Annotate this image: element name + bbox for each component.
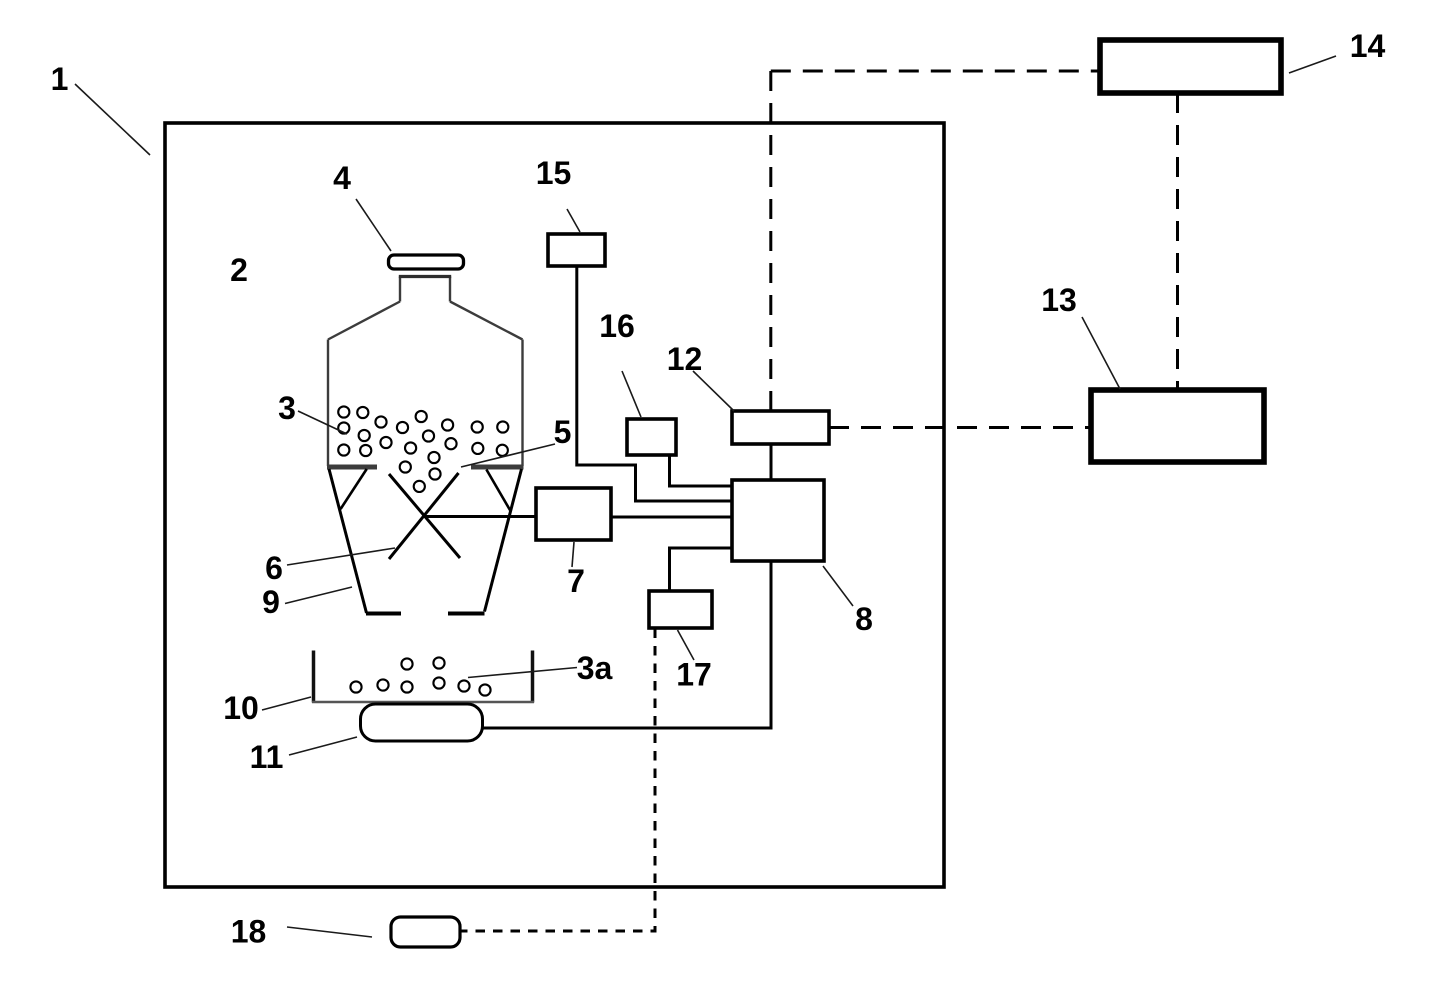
leader 13 [1082,317,1120,389]
leader 9 [285,587,352,604]
box 8 [732,480,824,561]
svg-text:3a: 3a [577,650,613,686]
leader 5 [461,444,555,467]
tray 10 left wall [312,651,316,703]
svg-text:3: 3 [278,390,296,426]
leader 3 [298,411,347,434]
left baffle [341,469,367,509]
wire box 12 to box 8 [770,444,773,480]
box 18 rounded [391,917,460,947]
svg-text:4: 4 [333,160,351,196]
leader 17 [678,630,695,660]
svg-text:1: 1 [51,61,69,97]
agitator 6 X line b [389,473,459,559]
svg-text:15: 15 [536,155,572,191]
agitator 6 X line a [389,474,460,558]
vibrator 11 rounded box [361,704,483,741]
box 14 [1100,40,1281,93]
tray 10 bottom [312,701,534,704]
funnel 9 right wall [485,469,522,612]
leader 16 [622,371,641,417]
svg-text:8: 8 [855,601,873,637]
box 16 [627,419,676,455]
enclosure box 1 [165,123,944,887]
hopper lid 4 [389,255,464,269]
leader 12 [693,371,734,411]
leader 8 [823,566,853,606]
leader 11 [289,737,357,755]
svg-text:11: 11 [250,739,284,775]
svg-text:5: 5 [554,414,572,450]
svg-text:16: 16 [599,308,635,344]
right baffle [486,470,510,511]
svg-text:12: 12 [667,341,703,377]
wire agitator to box 7 [424,515,536,518]
wire box 8 to vibrator 11 [483,561,771,728]
dashed wire vertical to box 12 [769,71,772,411]
wire box 8 to box 17 [670,548,733,591]
leader 14 [1289,56,1336,73]
leader 6 [287,548,395,565]
dashed wire box 14 to box 13 [1176,93,1179,390]
svg-text:17: 17 [676,657,712,693]
box 13 [1091,390,1264,462]
leader 7 [572,542,574,567]
wire box 7 to box 8 [611,516,732,519]
svg-text:18: 18 [231,914,267,950]
svg-text:2: 2 [230,252,248,288]
leader 1 [75,84,150,155]
leader 18 [287,927,372,937]
particles 3a in tray [350,657,490,695]
funnel bottom right lip [448,612,485,616]
dashed wire top horizontal to box 14 [771,70,1100,73]
funnel bottom left lip [366,612,401,616]
leader 10 [262,697,311,710]
svg-text:10: 10 [223,690,259,726]
leader 15 [567,209,580,232]
svg-text:14: 14 [1350,28,1386,64]
svg-text:9: 9 [262,584,280,620]
wire box 16 to box 8 [670,455,733,486]
box 12 [732,411,829,444]
box 7 [536,488,611,540]
wire box 15 to box 8 [577,266,732,501]
hopper vessel 2 outline [328,277,523,467]
vessel floor right segment [471,465,524,470]
particles 3 in hopper [338,406,508,492]
box 17 [649,591,712,628]
svg-text:7: 7 [567,563,585,599]
dashed wire box 12 to box 13 [829,426,1091,429]
dashed wire box 17 to box 18 [460,629,655,932]
leader 3a [468,668,577,678]
tray 10 right wall [531,651,535,703]
vessel floor left segment [327,465,377,470]
box 15 [548,234,605,266]
svg-text:13: 13 [1041,282,1077,318]
funnel 9 left wall [329,469,367,613]
svg-text:6: 6 [265,550,283,586]
leader 4 [356,199,391,251]
